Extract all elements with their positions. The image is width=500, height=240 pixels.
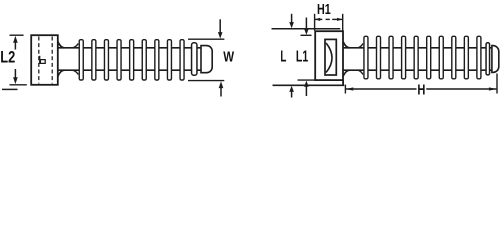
svg-text:H: H	[417, 81, 425, 98]
svg-text:H1: H1	[317, 1, 331, 18]
svg-text:L1: L1	[296, 49, 308, 66]
svg-text:L2: L2	[0, 48, 15, 67]
svg-text:L: L	[280, 49, 286, 66]
svg-text:W: W	[223, 49, 234, 65]
